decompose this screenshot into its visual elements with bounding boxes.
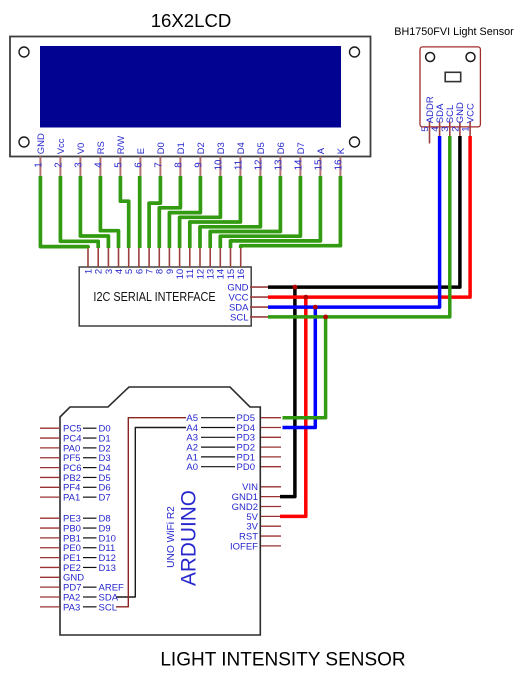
svg-text:A0: A0 <box>186 462 198 473</box>
svg-text:BH1750FVI Light Sensor: BH1750FVI Light Sensor <box>394 26 514 38</box>
svg-text:D0: D0 <box>156 142 167 154</box>
svg-text:R/W: R/W <box>116 136 127 155</box>
svg-text:VCC: VCC <box>465 103 476 123</box>
svg-text:GND: GND <box>36 133 47 154</box>
svg-text:15: 15 <box>313 159 324 170</box>
svg-text:E: E <box>136 148 147 154</box>
svg-text:V0: V0 <box>76 143 87 155</box>
svg-text:SCL: SCL <box>99 602 117 613</box>
svg-text:5: 5 <box>113 162 124 168</box>
svg-text:PA3: PA3 <box>63 602 80 613</box>
svg-text:9: 9 <box>193 162 204 167</box>
svg-text:8: 8 <box>173 162 184 168</box>
svg-text:10: 10 <box>213 159 224 170</box>
svg-text:1: 1 <box>461 126 472 131</box>
svg-text:14: 14 <box>293 159 304 170</box>
svg-text:D13: D13 <box>99 563 116 574</box>
svg-text:IOFEF: IOFEF <box>230 541 258 552</box>
svg-text:UNO WiFi R2: UNO WiFi R2 <box>166 506 177 568</box>
svg-text:PD0: PD0 <box>237 462 255 473</box>
svg-text:13: 13 <box>273 159 284 170</box>
svg-text:K: K <box>336 147 347 154</box>
svg-text:7: 7 <box>153 162 164 167</box>
svg-text:2: 2 <box>53 162 64 167</box>
svg-text:ARDUINO: ARDUINO <box>178 490 201 586</box>
svg-text:D6: D6 <box>276 142 287 154</box>
svg-text:PA1: PA1 <box>63 493 80 504</box>
svg-text:D7: D7 <box>296 142 307 154</box>
svg-text:12: 12 <box>253 160 264 171</box>
svg-text:4: 4 <box>93 162 104 168</box>
svg-text:6: 6 <box>133 162 144 168</box>
svg-text:SCL: SCL <box>230 312 248 323</box>
svg-text:LIGHT INTENSITY SENSOR: LIGHT INTENSITY SENSOR <box>160 650 405 671</box>
svg-text:3: 3 <box>73 162 84 168</box>
svg-text:1: 1 <box>33 162 44 167</box>
svg-text:D5: D5 <box>256 142 267 154</box>
svg-text:16: 16 <box>333 159 344 170</box>
svg-text:Vcc: Vcc <box>56 138 67 154</box>
svg-text:D2: D2 <box>196 142 207 154</box>
svg-text:11: 11 <box>233 160 244 170</box>
svg-text:D3: D3 <box>216 142 227 154</box>
svg-text:D4: D4 <box>236 142 247 154</box>
svg-text:RS: RS <box>96 141 107 154</box>
svg-text:A: A <box>316 147 327 154</box>
svg-text:D1: D1 <box>176 142 187 154</box>
svg-text:I2C SERIAL INTERFACE: I2C SERIAL INTERFACE <box>93 289 215 304</box>
svg-text:16: 16 <box>236 269 247 280</box>
svg-text:D7: D7 <box>99 493 111 504</box>
svg-text:16X2LCD: 16X2LCD <box>151 10 232 31</box>
